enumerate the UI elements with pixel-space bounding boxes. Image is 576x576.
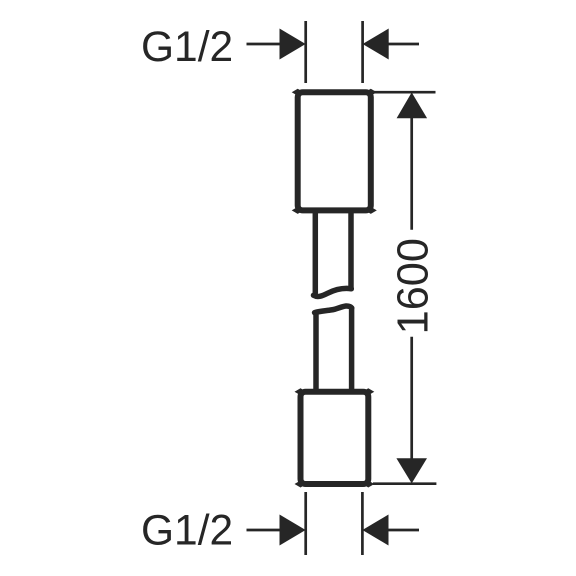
extension line bottom right: [361, 492, 364, 555]
bottom connector nut: [301, 392, 369, 484]
svg-text:G1/2: G1/2: [141, 508, 233, 555]
svg-text:G1/2: G1/2: [141, 24, 233, 71]
hose tube upper break wave: [314, 288, 352, 296]
top connector nut: [298, 92, 371, 210]
arrow 1600 up-pointing: [397, 92, 428, 118]
extension line 1600 top: [372, 91, 436, 94]
arrow 1600 down-pointing: [396, 458, 427, 483]
extension line top right: [361, 21, 364, 83]
extension line bottom left: [304, 492, 307, 555]
wire dimension line 1600 lower segment: [410, 337, 413, 460]
hose tube lower right edge: [349, 308, 355, 390]
hose tube lower left edge: [313, 314, 319, 391]
wire leader line top-left: [247, 43, 285, 46]
hose tube lower break wave: [315, 306, 352, 313]
arrow top dimension left-pointing: [363, 29, 389, 60]
extension line top left: [304, 21, 307, 83]
extension line 1600 bottom: [373, 482, 436, 485]
arrow bottom dimension left-pointing: [362, 515, 388, 546]
wire dimension line 1600 upper segment: [410, 116, 413, 230]
hose tube upper left edge: [313, 212, 319, 293]
wire tail line bottom-right: [386, 529, 419, 532]
bottom connector corner nubs: [295, 388, 375, 487]
wire leader line bottom-left: [247, 529, 285, 532]
arrow bottom dimension right-pointing: [280, 515, 306, 546]
wire tail line top-right: [386, 43, 419, 46]
hose tube upper right edge: [348, 212, 354, 288]
svg-text:1600: 1600: [389, 238, 437, 334]
arrow top dimension right-pointing: [280, 29, 306, 60]
top connector corner nubs: [292, 89, 377, 214]
